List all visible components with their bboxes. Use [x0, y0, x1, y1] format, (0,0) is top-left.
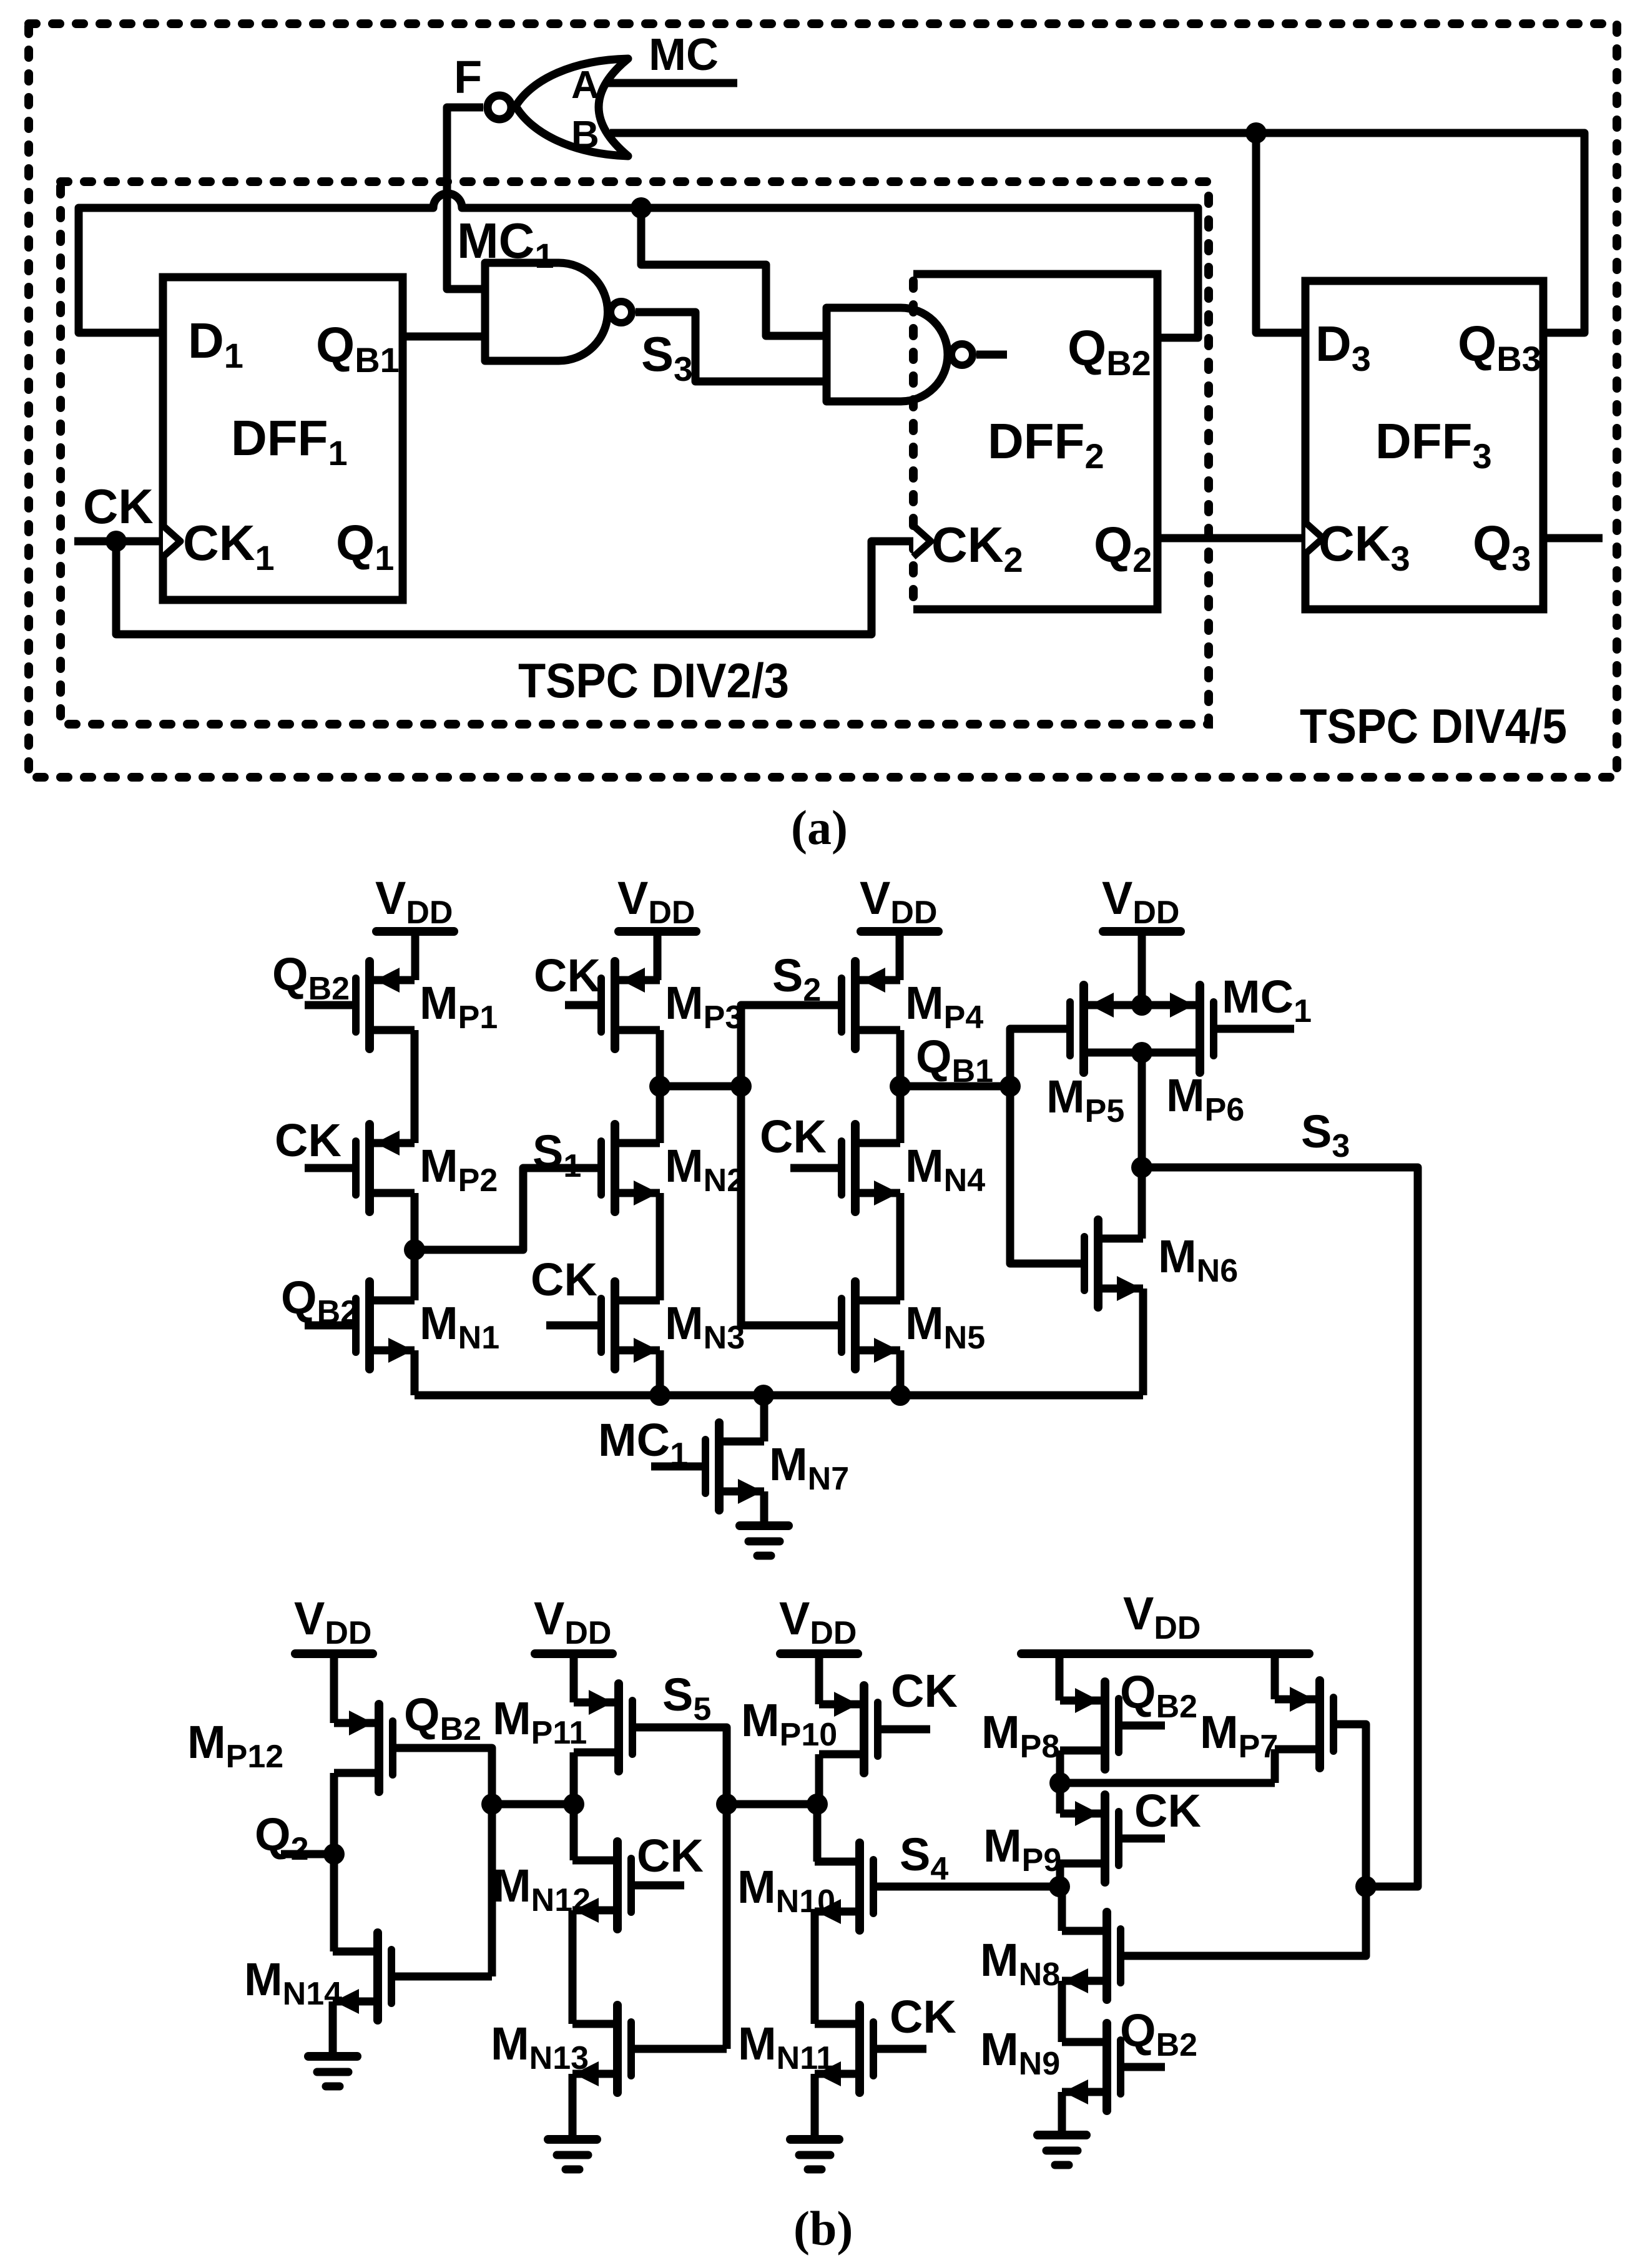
flip-flop DFF3	[1305, 281, 1543, 609]
transistor MN1	[356, 1282, 415, 1369]
wire MP12 drain to Q2 node	[330, 1773, 338, 1854]
wire NOR input A (MC)	[605, 79, 737, 87]
NAND1 output bubble	[611, 302, 632, 323]
node node S5 rail left	[716, 1794, 737, 1815]
wire MN3 gate stub	[546, 1322, 601, 1330]
svg-text:CK: CK	[890, 1991, 956, 2043]
wire VDD stub MP11	[570, 1654, 578, 1702]
power VDD (MP3 col)	[619, 927, 696, 936]
transistor MP8	[1060, 1682, 1119, 1769]
wire Q3 output wire	[1543, 534, 1603, 542]
ground (MN11)	[790, 2139, 839, 2169]
node node S2 top	[730, 1076, 752, 1097]
ground (MN9)	[1038, 2135, 1086, 2165]
wire MN7 gate stub	[651, 1463, 705, 1471]
node node QB2 rail right	[563, 1794, 584, 1815]
transistor MP12	[334, 1704, 393, 1792]
wire MP1 drain to MP2	[411, 1030, 419, 1143]
power VDD (right cluster)	[1021, 1649, 1309, 1658]
svg-text:MC: MC	[649, 30, 719, 80]
NOR gate U1 (MC,QB3 -> F)	[516, 59, 628, 156]
wire VDD stub MP1	[411, 931, 420, 980]
wire MP9 source up to rail	[1056, 1783, 1064, 1814]
wire MN2 drain up	[656, 1086, 664, 1143]
svg-text:CK: CK	[275, 1114, 341, 1166]
wire MN14 gate wire	[391, 1973, 492, 1981]
wire MN14 drain up to Q2	[330, 1854, 338, 1951]
wire QB1 from DFF1 to NAND1	[403, 333, 485, 341]
DFF2 dashed left edge	[909, 281, 918, 604]
ground (MN7)	[740, 1526, 788, 1556]
wire MN10 drain up	[813, 1804, 822, 1862]
svg-text:A: A	[571, 64, 599, 107]
wire Q2 input stub	[281, 1850, 334, 1858]
wire MP3 drain down	[656, 1030, 664, 1086]
transistor MN6	[1084, 1220, 1143, 1307]
svg-text:(b): (b)	[793, 2201, 853, 2256]
wire MP2 drain to node S1	[411, 1193, 419, 1250]
wire QB2 to D1 feedback with hop over F	[79, 194, 1198, 338]
wire VDD stub MP8	[1056, 1654, 1064, 1701]
node node S3 (b)	[1131, 1157, 1152, 1178]
node node Q2	[323, 1843, 345, 1865]
wire MP7 drain down to rail	[1271, 1749, 1279, 1783]
node node S4	[1049, 1876, 1070, 1897]
wire MP9 gate stub CK	[1119, 1835, 1165, 1843]
node node MP3 drain	[649, 1076, 670, 1097]
node node QB1 right	[999, 1076, 1021, 1097]
transistor MP3	[601, 961, 660, 1049]
wire MN10 source to MN11	[811, 1912, 819, 2024]
wire F output wire from NOR to NAND1	[447, 107, 485, 289]
svg-text:CK: CK	[534, 950, 601, 1001]
ground (MN13)	[548, 2139, 597, 2169]
wire VDD stub MP7	[1271, 1654, 1279, 1699]
svg-text:CK: CK	[891, 1665, 958, 1717]
clock input triangle CK1	[163, 526, 180, 557]
svg-text:CK: CK	[1134, 1785, 1201, 1837]
wire QB2-net drop to NAND2 top input	[641, 208, 827, 336]
wire QB2 column	[488, 1804, 496, 1976]
wire S1 wire to MN2 gate	[415, 1168, 601, 1250]
wire MN11 source to ground	[811, 2074, 819, 2139]
wire ground rail top circuit	[415, 1392, 1143, 1400]
wire MN13 gate wire	[631, 2045, 727, 2053]
node node QB1 left	[890, 1076, 911, 1097]
power VDD (MP11 col)	[535, 1649, 612, 1658]
transistor MN5	[842, 1282, 900, 1369]
wire VDD stub MP3	[654, 931, 662, 980]
transistor MN8	[1062, 1912, 1121, 2000]
transistor MN12	[572, 1842, 631, 1929]
wire MP3 gate stub	[565, 1001, 601, 1009]
power VDD (MP5/MP6)	[1103, 927, 1181, 936]
transistor MN13	[572, 2005, 631, 2093]
clock input triangle CK3	[1305, 523, 1323, 554]
wire S4 wire MN10 gate	[873, 1883, 1059, 1891]
node junction CK input	[106, 531, 127, 552]
wire MP8 gate stub QB2	[1119, 1722, 1165, 1730]
ground (MN14)	[308, 2056, 357, 2086]
outer dashed box TSPC DIV4/5	[29, 24, 1617, 777]
power VDD (MP4 col)	[861, 927, 938, 936]
wire S5 column	[723, 1804, 731, 2049]
power VDD (MP12 col)	[295, 1649, 373, 1658]
node node S1	[404, 1239, 425, 1260]
svg-text:CK: CK	[637, 1830, 704, 1882]
wire drain rail to MP7	[1060, 1779, 1275, 1787]
wire MN3 source to rail	[656, 1350, 664, 1395]
wire CK trunk to CK2	[116, 541, 913, 634]
NAND gate U3 (QB2,S3 -> D2)	[827, 308, 948, 401]
transistor MP5	[1070, 985, 1114, 1073]
wire MN14 source to ground	[329, 2001, 337, 2056]
wire MN6 source to rail	[1139, 1289, 1147, 1395]
wire VDD stub MP10	[815, 1654, 823, 1704]
transistor MN2	[601, 1124, 660, 1212]
wire QB2 rail segment	[492, 1800, 574, 1809]
wire MN8 source to MN9	[1058, 1981, 1066, 2042]
transistor MN3	[601, 1282, 660, 1369]
wire S2 wire to MP4 gate	[741, 1005, 842, 1086]
transistor MP6	[1170, 985, 1214, 1073]
transistor MN9	[1062, 2023, 1121, 2111]
transistor MN11	[815, 2005, 873, 2093]
flip-flop DFF1	[163, 277, 403, 600]
transistor MP9	[1060, 1795, 1119, 1882]
wire CK input wire	[74, 538, 163, 546]
svg-text:TSPC DIV4/5: TSPC DIV4/5	[1300, 699, 1567, 754]
wire MP11 drain down	[570, 1752, 578, 1804]
transistor MP7	[1275, 1681, 1333, 1768]
wire MP2 gate stub	[305, 1164, 356, 1172]
wire MP8 drain down	[1056, 1750, 1064, 1783]
wire MN12 drain up	[570, 1804, 578, 1860]
transistor MN10	[815, 1843, 873, 1930]
NAND gate U2 (F,QB1 -> S3)	[485, 263, 608, 361]
wire MN12 gate stub CK	[631, 1882, 684, 1890]
wire MP6 gate lead MC1	[1214, 1025, 1294, 1033]
wire S3 column from drain rail to MN6	[1138, 1053, 1146, 1239]
wire MP3 drain rail	[660, 1082, 741, 1091]
svg-text:CK: CK	[760, 1111, 827, 1162]
node node rail MN7	[753, 1385, 774, 1406]
wire NOR input B from QB3	[610, 133, 1584, 333]
wire D3 drop wire	[1256, 133, 1305, 333]
node node QB2 rail left	[481, 1794, 503, 1815]
wire MP9 drain down to S4	[1056, 1863, 1064, 1887]
wire MP11 gate wire S5	[632, 1727, 727, 1804]
svg-text:CK: CK	[83, 479, 154, 534]
wire MP10 gate stub CK	[878, 1726, 930, 1734]
node node rail MN3	[649, 1385, 670, 1406]
wire MP12 gate wire QB2	[393, 1748, 492, 1804]
wire MN1 source to rail	[411, 1350, 419, 1395]
wire MN4 source to MN5	[896, 1193, 905, 1300]
wire MN13 source to ground	[569, 2074, 577, 2139]
wire VDD stub MP4	[896, 931, 904, 980]
NOR output bubble	[488, 96, 511, 119]
wire MN1 gate stub	[305, 1322, 356, 1330]
wire MN7 drain up to rail	[760, 1395, 768, 1441]
transistor MP11	[574, 1684, 632, 1771]
wire S3 wire NAND1 out to NAND2 input	[636, 312, 827, 381]
power VDD (MP10 col)	[780, 1649, 858, 1658]
inner dashed box TSPC DIV2/3	[61, 182, 1209, 724]
power VDD (MP1 col)	[376, 927, 454, 936]
wire MP4 drain down	[896, 1030, 905, 1086]
wire MN5 source to rail	[896, 1350, 905, 1395]
wire S5 rail segment	[727, 1800, 817, 1809]
NAND2 output stub	[976, 351, 1007, 359]
wire MN11 gate stub CK	[873, 2045, 926, 2053]
wire MN12 source to MN13	[569, 1910, 577, 2024]
wire MN9 gate stub QB2	[1121, 2063, 1165, 2071]
NAND2 output bubble	[951, 344, 973, 365]
node node MP8 drain rail	[1049, 1772, 1071, 1794]
wire MN4 gate stub	[790, 1164, 842, 1172]
wire MP7 gate wire	[1121, 1724, 1366, 1956]
svg-text:TSPC DIV2/3: TSPC DIV2/3	[518, 653, 789, 708]
transistor MN4	[842, 1124, 900, 1212]
wire MP5/MP6 drain rail	[1084, 1049, 1200, 1057]
transistor MN14	[333, 1933, 391, 2020]
wire Q2 to CK3 wire	[1157, 534, 1305, 542]
wire QB1 to MP5 gate	[1010, 1029, 1070, 1086]
wire VDD stub MP12	[330, 1654, 338, 1723]
wire MP1 gate stub	[305, 1001, 356, 1009]
transistor MN7	[705, 1423, 764, 1510]
transistor MP2	[356, 1124, 415, 1212]
node node rail MN5	[890, 1385, 911, 1406]
wire S3 long wire	[1142, 1167, 1418, 1887]
wire QB1 to MN6 gate	[1010, 1086, 1084, 1264]
node junction QB2-net to NAND2	[631, 197, 652, 218]
wire QB1 rail	[900, 1082, 1010, 1091]
wire VDD stub MP5/MP6	[1138, 931, 1146, 1005]
wire MP5/MP6 source rail	[1084, 1001, 1200, 1009]
flip-flop DFF2	[913, 274, 1157, 609]
wire MN8 drain up to S4	[1058, 1887, 1066, 1931]
node node drain rail MP5/MP6	[1131, 1042, 1152, 1063]
wire MN7 source to ground	[760, 1491, 768, 1526]
wire MN9 source to ground	[1058, 2092, 1066, 2135]
wire S2 column down to MN5 gate	[741, 1086, 842, 1325]
svg-text:(a): (a)	[791, 800, 848, 855]
wire MN2 source to MN3	[656, 1193, 664, 1300]
wire MN1 drain up to node	[411, 1250, 419, 1300]
svg-text:CK: CK	[531, 1254, 597, 1305]
node junction B-net to D3	[1245, 122, 1267, 144]
node node VDD rail MP5/MP6	[1131, 994, 1152, 1016]
wire MN4 drain up	[896, 1086, 905, 1143]
node node S3 bottom	[1355, 1876, 1377, 1897]
transistor MP4	[842, 961, 900, 1049]
svg-text:F: F	[454, 51, 482, 103]
wire MP10 drain down	[815, 1754, 823, 1804]
node node S5 rail right	[807, 1794, 828, 1815]
clock input triangle CK2	[913, 526, 931, 557]
transistor MP10	[819, 1686, 878, 1773]
transistor MP1	[356, 961, 415, 1049]
svg-text:B: B	[571, 114, 599, 157]
